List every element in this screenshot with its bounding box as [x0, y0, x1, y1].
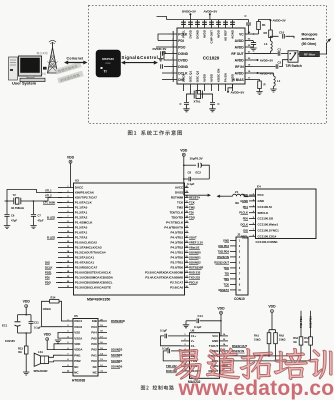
T/R switch S1 [288, 51, 298, 62]
U3 right pin 30 P4.4/TB1 [171, 236, 189, 240]
node DVDD=3V (top) [182, 10, 196, 20]
label XTL2 [45, 194, 52, 198]
svg-text:AVDD: AVDD [235, 58, 245, 62]
wire VDD to VCC pin [220, 314, 222, 336]
capacitor C6 47pF [4, 201, 17, 225]
U5 left pin 8 PW2 [62, 359, 81, 363]
label DIO net [45, 260, 62, 264]
svg-text:P3.6/TB0: P3.6/TB0 [171, 266, 184, 270]
svg-text:C2: C2 [278, 61, 282, 65]
power VDD (U3) [67, 155, 75, 163]
svg-text:AGND: AGND [231, 29, 235, 39]
svg-text:GND: GND [212, 339, 218, 343]
E4 pin 1 VDD [242, 193, 264, 197]
U3 right pin 37 TCK [177, 201, 189, 205]
gray caption slanted 1 [55, 62, 82, 75]
svg-text:RF filter: RF filter [304, 52, 316, 56]
wire crystal left [5, 200, 14, 202]
capacitor C (right of crystal) [210, 102, 220, 106]
svg-text:VDDA: VDDA [74, 348, 83, 352]
svg-text:R14: R14 [51, 295, 56, 299]
capacitor C11b 0.1uF (charge pump 1) [160, 328, 181, 346]
U3 right pin 21 P2.7/CA7 [170, 281, 188, 285]
svg-text:51kΩ: 51kΩ [279, 338, 285, 342]
decoupling capacitors on top rail [181, 22, 235, 24]
U6 left pin 4 C2+ [181, 348, 196, 353]
label RESET# net [189, 196, 200, 200]
svg-text:C1+: C1+ [191, 334, 197, 338]
svg-text:PA4: PA4 [91, 331, 97, 335]
svg-text:PA5: PA5 [91, 336, 97, 340]
svg-text:P4.6/TB0UTH: P4.6/TB0UTH [164, 226, 183, 230]
U6 left pin 1 C1+ [181, 334, 196, 338]
label SOUND0 net (U5) [111, 365, 123, 369]
svg-text:TDI: TDI [189, 211, 194, 215]
svg-text:TDO: TDO [189, 216, 196, 220]
node AVDD=3V (pin18) [253, 71, 273, 75]
svg-text:P3.0/UCB0STE/UCA0CLK: P3.0/UCB0STE/UCA0CLK [75, 271, 112, 275]
label B LED net [47, 215, 62, 219]
net RXD PBA (vertical) [309, 311, 313, 361]
wire T2OUT line [228, 355, 301, 357]
svg-text:PA1: PA1 [91, 353, 97, 357]
dashed system boundary [89, 6, 327, 124]
svg-text:PDI: PDI [45, 275, 50, 279]
svg-text:RS232 IN: RS232 IN [217, 255, 229, 259]
node AVDD=3V (top) [204, 10, 218, 20]
U5 right pin 11 NC [93, 370, 107, 374]
svg-text:VDD: VDD [74, 342, 80, 346]
E4 pin 8 PSEL [241, 234, 277, 238]
connector J2 CONT0 [236, 237, 248, 295]
svg-text:CC1100.SO: CC1100.SO [258, 217, 274, 221]
svg-text:GND: GND [258, 199, 265, 203]
svg-text:C: C [218, 102, 220, 106]
U5 right pin 16 PA6 [91, 342, 107, 346]
svg-text:P1.1/TA0: P1.1/TA0 [75, 206, 88, 210]
capacitor C2 (RF in coupling) [253, 60, 288, 69]
inductor Z1 0 ohm [223, 190, 256, 205]
CC1020 top pin DGND [196, 20, 200, 39]
U6 right pin 7 T2OUT [209, 354, 228, 358]
svg-text:EC2: EC2 [196, 171, 202, 175]
svg-text:DVDD=3V: DVDD=3V [182, 10, 196, 14]
svg-text:SOUND3: SOUND3 [111, 347, 123, 351]
node DVDD=3V (left) [153, 47, 169, 60]
svg-text:CC1100.SI: CC1100.SI [258, 205, 272, 209]
wire OSC Q2 to crystal [198, 91, 213, 102]
J2 pin 6 TDO [223, 266, 241, 270]
svg-text:C: C [245, 14, 247, 18]
svg-text:AVDD: AVDD [203, 29, 207, 38]
label SOUND3 net (U5) [111, 347, 123, 351]
svg-text:KIB PD4: KIB PD4 [218, 244, 229, 248]
U6 right pin 9 T2IN [212, 364, 228, 368]
svg-text:TDO/TDI: TDO/TDI [171, 216, 183, 220]
svg-text:AVDD=3V: AVDD=3V [260, 58, 273, 62]
svg-text:RS232 IN: RS232 IN [232, 349, 244, 353]
U3 right pin 25 P3.7/TB1 [171, 261, 189, 265]
U5 left pin 6 VDDA [62, 348, 83, 352]
svg-text:P1.7/TA2: P1.7/TA2 [75, 236, 88, 240]
ground loop filter [250, 48, 256, 51]
ground crystal right [209, 105, 215, 112]
svg-text:VOUT: VOUT [189, 236, 197, 240]
svg-text:P4.2/TB2: P4.2/TB2 [171, 246, 184, 250]
U3 right pin 22 P3.4/UCA0TXD/UCA0SIMO [145, 276, 188, 280]
capacitor C (left of crystal) [180, 102, 190, 106]
wire crystal right [21, 200, 34, 202]
capacitor C1 (RF out coupling) [253, 48, 288, 56]
CC1020 bottom pin OSC Q2 [196, 71, 200, 91]
svg-text:PDI: PDI [178, 39, 184, 43]
svg-text:SOUND2: SOUND2 [111, 353, 123, 357]
svg-text:P4.1/TB1: P4.1/TB1 [171, 251, 184, 255]
svg-text:CTL 500K: CTL 500K [43, 201, 55, 205]
resistor R2 (VCO) [264, 20, 273, 37]
svg-text:RSTB330R: RSTB330R [111, 319, 125, 323]
U3 right pin 28 P4.2/TB2 [171, 246, 189, 250]
svg-text:J2: J2 [237, 233, 241, 237]
svg-text:P1.3/TA2: P1.3/TA2 [75, 216, 88, 220]
ground left decoupling [158, 56, 163, 61]
gray caption top [37, 52, 48, 55]
U3 left pin 14 P2.2/CAOUT/TA0/CA4 [58, 250, 106, 255]
node AVDD=3V (pin20) [253, 58, 273, 62]
label SOUND2 net (U5) [111, 353, 123, 357]
svg-text:P3.3/UCB0CLK/UCA0STE: P3.3/UCB0CLK/UCA0STE [75, 286, 111, 290]
svg-text:VSSA: VSSA [74, 336, 83, 340]
CC1020 bottom pin XOSC EN [217, 69, 221, 91]
wire RESET arrow feed [184, 194, 198, 196]
U5 left pin 1 OSC1 [62, 319, 83, 323]
svg-text:CC1100.CS1#: CC1100.CS1# [258, 234, 277, 238]
svg-text:0.1μF: 0.1μF [160, 328, 167, 332]
CC1020 bottom pin LOCK [182, 73, 186, 91]
U3 left pin 7 P1.3/TA2 [58, 216, 88, 220]
svg-text:VREF 2.1V: VREF 2.1V [189, 241, 203, 245]
svg-text:R1: R1 [262, 23, 266, 27]
svg-text:AVCC: AVCC [175, 186, 184, 190]
wire OSC Q1 to crystal [187, 91, 191, 102]
CC1020 top pin PSEL [182, 20, 186, 38]
svg-text:47pF: 47pF [11, 219, 17, 223]
label CTL 500K net [43, 201, 62, 205]
U3 right pin 33 P4.7/TBCLK [166, 221, 189, 225]
power VDD (pullups) [268, 305, 276, 313]
CC1020 left pin 3 PDO [168, 45, 186, 49]
U3 right pin 32 P4.6/TB0UTH [164, 226, 188, 230]
CC1020 top pin AVDD [203, 20, 207, 38]
U3 left pin 9 P1.5/TA0 [58, 226, 88, 230]
gray caption small [41, 72, 46, 74]
svg-text:0.1μF: 0.1μF [187, 182, 195, 186]
U3 left pin 19 P3.1/UCB0SIMO/UCB0SDA [58, 276, 114, 280]
U3 left pin 20 P3.2/UCB0SOMI/UCB0SCL [58, 281, 113, 285]
svg-text:P2.3/TA1/CA1: P2.3/TA1/CA1 [75, 256, 95, 260]
capacitor C12 0.1uF (charge pump 2) [162, 346, 181, 361]
U5 right pin 19 PA3 [91, 325, 107, 329]
resistor R3 (R BIAS) [253, 80, 266, 92]
svg-text:L1: L1 [277, 79, 281, 83]
svg-text:CON10: CON10 [234, 297, 245, 301]
label PSEL net [45, 270, 62, 274]
svg-text:RXD 232: RXD 232 [189, 271, 201, 275]
U3 right pin 27 P4.1/TB1 [171, 251, 189, 255]
label RS232 IN net [232, 349, 245, 353]
net TXD PBA (vertical) [299, 311, 303, 356]
CC1020 top pin AD REF [224, 20, 228, 41]
svg-text:T1OUT: T1OUT [209, 344, 219, 348]
svg-text:P2.6/CA6: P2.6/CA6 [170, 286, 183, 290]
PC keyboard [20, 78, 45, 81]
IC U5 HT63038 [73, 319, 98, 377]
svg-text:32.768kHz: 32.768kHz [11, 206, 25, 210]
svg-text:P2.5/ROSC/CA7: P2.5/ROSC/CA7 [75, 266, 98, 270]
svg-text:6: 6 [239, 268, 241, 270]
wire VDD pin bridge [54, 344, 62, 350]
svg-text:VDD: VDD [23, 300, 31, 304]
svg-text:TDI: TDI [225, 271, 230, 275]
svg-text:R13: R13 [18, 347, 23, 351]
wire PDI to control bus [158, 40, 168, 42]
svg-text:0.1μF: 0.1μF [194, 325, 202, 329]
svg-text:VDD: VDD [44, 333, 52, 337]
wire XTL2 net [33, 198, 62, 202]
svg-text:P3.1/UCB0SIMO/UCB0SDA: P3.1/UCB0SIMO/UCB0SDA [75, 276, 114, 280]
U3 left pin 5 P1.1/TA0 [58, 206, 88, 210]
radio tower antenna [48, 40, 58, 73]
U6 right pin 16 VCC [212, 334, 228, 338]
U3 right pin 29 P4.3/TB0 [171, 241, 189, 245]
svg-text:AD REF: AD REF [224, 30, 228, 41]
svg-text:TMS: TMS [223, 277, 229, 281]
IC U1 CC1020 [177, 28, 245, 84]
svg-text:NC: NC [93, 370, 98, 374]
svg-text:XTL1: XTL1 [45, 189, 52, 193]
ground audio [23, 372, 29, 375]
svg-text:47pF: 47pF [38, 219, 44, 223]
svg-text:SPICLK: SPICLK [258, 211, 270, 215]
resistor R14 100k [43, 295, 60, 311]
wire speaker to PW1 [49, 355, 63, 362]
capacitor C5 (top right) [237, 14, 251, 34]
svg-text:DGND: DGND [178, 65, 188, 69]
svg-text:TDO: TDO [223, 266, 229, 270]
svg-text:U6: U6 [191, 328, 195, 332]
svg-text:CC1100.Wake1: CC1100.Wake1 [258, 223, 279, 227]
label PDI net [45, 275, 62, 279]
J2 pin 4 RS232 IN [217, 255, 241, 259]
svg-text:OSC1: OSC1 [74, 319, 82, 323]
svg-text:MSP430F2350: MSP430F2350 [87, 297, 110, 301]
U6 left pin 2 V+ [181, 339, 195, 343]
E4 pin 5 PD0 [243, 217, 274, 221]
CC1020 top pin DVDD [189, 20, 193, 39]
svg-text:VSS: VSS [74, 331, 80, 335]
wire VDD audio rail [18, 308, 32, 316]
svg-text:V+: V+ [191, 339, 195, 343]
svg-text:P2.0/ACLK/CA2: P2.0/ACLK/CA2 [75, 241, 98, 245]
svg-text:AVDD: AVDD [210, 73, 214, 82]
J2 pin 3 TXD PD4 [218, 249, 241, 253]
U5 left pin 7 PW1 [62, 353, 81, 357]
svg-text:AVDD=3V: AVDD=3V [273, 19, 286, 23]
U5 right pin 15 PA2 [91, 348, 107, 352]
svg-text:(50 Ohm): (50 Ohm) [302, 42, 317, 46]
J2 pin 8 TMS [223, 277, 241, 281]
svg-text:PD0: PD0 [243, 217, 249, 221]
CC1020 bottom pin AVDD [210, 73, 214, 91]
svg-text:Rh1: Rh1 [254, 334, 259, 338]
svg-text:P2.7/CA7: P2.7/CA7 [170, 281, 183, 285]
svg-text:P3.2/UCB0SOMI/UCB0SCL: P3.2/UCB0SOMI/UCB0SCL [75, 281, 113, 285]
IC MSP430 module (black) [96, 50, 121, 77]
svg-text:DVCC: DVCC [75, 186, 84, 190]
label VBat1/2 net [189, 246, 200, 250]
svg-text:DVDD: DVDD [178, 58, 188, 62]
svg-text:TMS: TMS [189, 206, 195, 210]
svg-text:VBat1/2: VBat1/2 [189, 246, 200, 250]
svg-text:P1CLK: P1CLK [239, 211, 248, 215]
watermark text [174, 348, 334, 400]
svg-text:P2.1/TAINCLK/CA3: P2.1/TAINCLK/CA3 [75, 246, 102, 250]
svg-text:P3.4/UCA0TXD/UCA0SIMO: P3.4/UCA0TXD/UCA0SIMO [145, 276, 184, 280]
U5 right pin 13 PA0 [91, 359, 107, 363]
U3 left pin 8 P1.4/SMCLK [58, 221, 93, 225]
U3 right pin 35 TDI/TCLK [170, 211, 189, 215]
U3 left pin 12 P2.0/ACLK/CA2 [58, 241, 97, 245]
E4 pin 6 DCLK [241, 223, 279, 227]
arrow Comunel link [64, 61, 88, 65]
svg-text:VDD: VDD [242, 193, 248, 197]
svg-text:DVDD: DVDD [189, 29, 193, 38]
J2 pin 2 KIB PD4 [218, 244, 240, 248]
svg-text:R2: R2 [264, 31, 268, 35]
U5 left pin 5 VDD [62, 342, 80, 346]
svg-text:P4.5/TB2: P4.5/TB2 [171, 231, 184, 235]
svg-text:EC1: EC1 [2, 324, 8, 328]
U6 right pin 15 GND [212, 339, 228, 343]
label TXD232 (U6 input) [166, 364, 177, 368]
J2 pin 10 RESET# [219, 288, 242, 292]
U3 right pin 34 TDO/TDI [171, 215, 188, 220]
label SOUND0 net [189, 251, 201, 255]
svg-text:www.edatop.com: www.edatop.com [178, 377, 334, 400]
svg-text:XIN/P2.6/CA6: XIN/P2.6/CA6 [75, 191, 94, 195]
U3 left pin 11 P1.7/TA2 [58, 236, 88, 240]
svg-text:RS232 OUT: RS232 OUT [214, 260, 229, 264]
U6 right pin 14 T1OUT [209, 343, 228, 348]
capacitor EC1 100/16V electrolytic [2, 315, 21, 343]
crystal X1 [187, 91, 213, 104]
svg-text:P4.3/TB0: P4.3/TB0 [171, 241, 184, 245]
PC tower case [9, 57, 18, 80]
U5 left pin 10 NC [62, 370, 79, 374]
svg-text:4: 4 [239, 256, 241, 259]
wire XTL1 net [6, 190, 62, 202]
power VDD (MAX232) [217, 306, 225, 314]
svg-text:VC: VC [239, 32, 244, 36]
monopole antenna ANT1 [327, 38, 332, 43]
label RS232 OUT net [232, 344, 248, 348]
tower link device [43, 67, 47, 70]
connector E4 CC1100.CONN1 [256, 189, 317, 239]
svg-text:P1.2/TA1: P1.2/TA1 [75, 211, 88, 215]
svg-text:Rh4: Rh4 [304, 337, 309, 340]
U6 left pin 5 C2- [181, 354, 195, 358]
svg-text:P1.5/TA0: P1.5/TA0 [75, 226, 88, 230]
resistor Rh4 0 ohm [304, 337, 309, 344]
svg-text:10μF6.3V: 10μF6.3V [190, 157, 203, 161]
U3 right pin 38 RST/NMI [171, 196, 189, 200]
crystal Y2 32.768kHz [11, 193, 25, 210]
svg-text:PA3: PA3 [91, 325, 97, 329]
U3 right pin 23 P3.5/UCA0RXD/UCA0SOMI [145, 271, 189, 275]
svg-text:TMS: TMS [177, 206, 183, 210]
svg-text:B LED: B LED [47, 215, 55, 219]
svg-text:PDO: PDO [45, 280, 51, 284]
svg-text:0Ω: 0Ω [293, 341, 296, 344]
svg-text:E4: E4 [257, 185, 261, 189]
svg-text:OSC Q2: OSC Q2 [196, 71, 200, 83]
svg-text:P1.6/TA1: P1.6/TA1 [75, 231, 88, 235]
label Monopole antenna [302, 33, 318, 46]
U3 left pin 3 XOUT/P2.7/CA7 [58, 196, 97, 200]
CC1020 right pin 20 AVDD [235, 58, 253, 62]
svg-text:P3.7/TB1: P3.7/TB1 [171, 261, 184, 265]
CC1020 right pin 24 VC [239, 31, 253, 36]
svg-text:VDD: VDD [217, 306, 225, 310]
svg-text:RS232 OUT: RS232 OUT [232, 344, 248, 348]
E4 pin 7 DIO [243, 228, 279, 232]
svg-text:User System: User System [12, 81, 37, 86]
label TMS net [189, 206, 195, 210]
svg-text:PDO: PDO [178, 45, 186, 49]
svg-text:LOCK: LOCK [182, 73, 186, 82]
capacitor C8 0.1uF [184, 177, 209, 186]
U3 right pin 26 P4.0/TB0 [171, 256, 189, 260]
svg-text:100kΩ: 100kΩ [43, 307, 52, 311]
wire filter to antenna [320, 43, 327, 54]
power VDD (speaker) [44, 333, 52, 341]
CC1020 right pin 19 RF IN [235, 65, 253, 69]
capacitor C14 0.1uF [186, 314, 221, 329]
CC1020 left pin 4 DGND [168, 51, 189, 56]
svg-text:NC: NC [74, 370, 79, 374]
svg-text:AVDD=3V: AVDD=3V [231, 90, 245, 94]
wire VDD to DVCC [70, 163, 72, 187]
svg-text:LS1: LS1 [38, 350, 43, 354]
svg-text:P2CLK: P2CLK [189, 281, 198, 285]
power VDD (decoupling) [180, 148, 188, 156]
CC1020 bottom pin OSC Q1 [189, 71, 193, 91]
svg-text:T/R Switch: T/R Switch [286, 64, 302, 68]
speaker LS1 [34, 350, 49, 373]
ground VSS [55, 332, 62, 343]
U5 left pin 4 VSSA [62, 335, 83, 340]
svg-text:TXD PD4: TXD PD4 [218, 249, 230, 253]
wire top supply rail [167, 19, 238, 21]
svg-text:PA0: PA0 [91, 359, 97, 363]
U3 right pin 31 P4.5/TB2 [171, 231, 189, 235]
svg-text:VDD: VDD [180, 148, 188, 152]
label RSTB330R net (U5) [111, 319, 125, 323]
svg-text:DGND: DGND [178, 52, 188, 56]
E4 pin 2 AGND [240, 199, 264, 203]
svg-text:OSC Q1: OSC Q1 [189, 71, 193, 83]
U6 right pin 13 R1IN [212, 349, 228, 353]
